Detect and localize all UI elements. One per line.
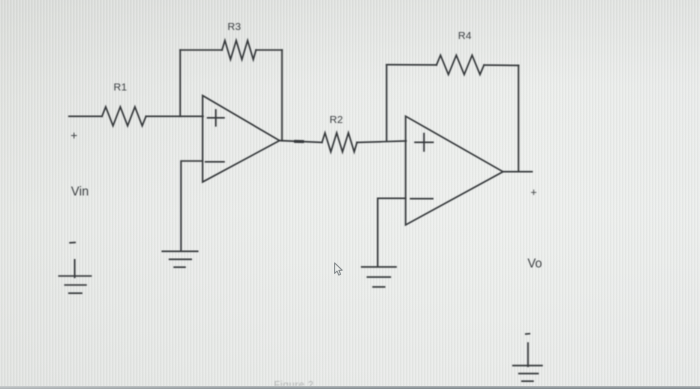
wire U1 inverting input to ground [181,161,203,251]
dark bezel strip at bottom [0,386,700,389]
label R4 [458,30,472,42]
svg-text:+: + [71,129,78,143]
ground (Vo reference) [513,343,542,381]
label R2 [330,114,344,126]
wire R3 top right [256,49,282,51]
ground (Vin reference) [59,260,91,293]
wire R3 top left [180,49,222,51]
op-amp U2 plus marking [415,134,433,151]
wire R3 feedback down to U1 output [281,50,283,141]
wire R4 feedback down to U2 output [518,65,520,171]
wire input Vin to R1 [69,115,102,117]
wire R4 top right [484,64,519,66]
svg-text:R2: R2 [330,114,344,126]
svg-text:R3: R3 [228,21,242,33]
wire R1 to op-amp U1 + input [146,115,203,117]
label plus at Vo [531,187,537,199]
wire U1 output to R2 [280,141,323,143]
wire U2 inverting input to ground [378,198,406,266]
svg-text:R4: R4 [458,30,472,42]
svg-text:R1: R1 [114,82,128,94]
svg-text:+: + [531,187,537,199]
resistor R2 [322,133,357,152]
resistor R3 [222,41,256,60]
ground (U1 inverting input) [162,251,197,267]
op-amp U2 minus marking [411,198,433,200]
label Vo [528,257,543,271]
svg-text:Vo: Vo [528,257,543,271]
partially cropped caption "Figure 2" [274,380,322,386]
wire U2 output Vo [503,171,532,173]
svg-text:Vin: Vin [71,185,89,199]
op-amp U1 [203,96,280,183]
node B (junction R2 / R4 feedback) [386,65,388,141]
minus tick above Vo ground [526,333,530,335]
mouse cursor [335,263,343,275]
label Vin [71,185,89,199]
op-amp U2 [406,116,503,225]
resistor R1 [102,107,146,126]
wire R4 top left [387,64,437,66]
resistor R4 [437,55,485,74]
ground (U2 inverting input) [362,267,396,287]
label plus at Vin [71,129,78,143]
minus tick above Vin ground [70,242,75,244]
wire R2 to op-amp U2 + input [357,141,406,142]
node A (junction R1 / R3 feedback) [179,50,181,116]
op-amp U1 minus marking [206,161,225,163]
label R1 [114,82,128,94]
label R3 [228,21,242,33]
wire overlap dash at U1 output [296,140,303,143]
op-amp U1 plus marking [208,110,224,126]
